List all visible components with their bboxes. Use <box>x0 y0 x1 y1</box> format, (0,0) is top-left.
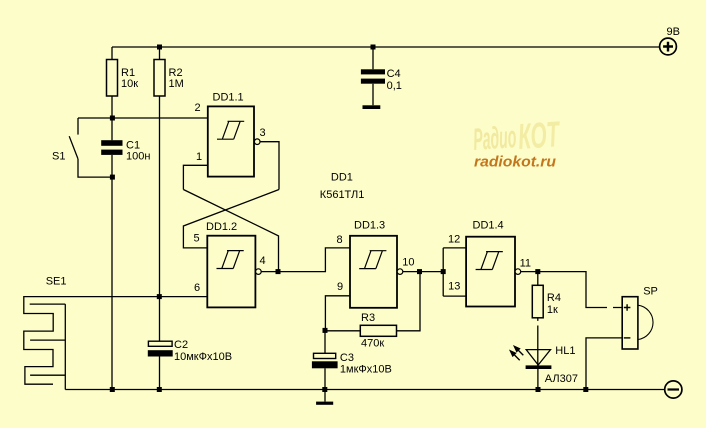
node bottom rail HL1 junction <box>536 387 541 392</box>
LED HL1 <box>526 350 552 390</box>
wire diagonal DD1.2 out to DD1.1 pin1 <box>183 190 278 272</box>
wire diagonal DD1.1 out to DD1.2 pin5 <box>183 190 279 248</box>
node bottom rail C3 junction <box>322 387 327 392</box>
svg-text:0,1: 0,1 <box>387 80 402 92</box>
svg-text:4: 4 <box>260 255 266 267</box>
svg-text:9В: 9В <box>667 26 680 38</box>
svg-text:DD1.1: DD1.1 <box>213 92 244 104</box>
svg-text:1к: 1к <box>547 304 558 316</box>
svg-text:HL1: HL1 <box>555 345 575 357</box>
op-amp U2 : gate DD1.2 <box>207 236 261 308</box>
svg-text:470к: 470к <box>361 338 384 350</box>
svg-text:radiokot.ru: radiokot.ru <box>474 155 556 171</box>
watermark Radio KOT <box>472 113 562 170</box>
wire DD1.2 output to DD1.3 pin8 <box>261 248 350 272</box>
node pin11 junction <box>535 269 540 274</box>
op-amp U3 : gate DD1.3 <box>350 236 403 308</box>
svg-text:C2: C2 <box>174 339 188 351</box>
svg-text:R4: R4 <box>547 292 561 304</box>
svg-text:S1: S1 <box>52 151 65 163</box>
svg-text:10мкФх10В: 10мкФх10В <box>174 351 232 363</box>
svg-text:10к: 10к <box>121 78 138 90</box>
svg-text:5: 5 <box>194 233 200 245</box>
capacitor C3 <box>312 330 338 389</box>
svg-text:1: 1 <box>196 151 202 163</box>
wire C1 column to bottom rail <box>111 177 113 389</box>
wire top supply rail <box>112 46 659 48</box>
capacitor C2 <box>148 297 173 390</box>
svg-text:Радио: Радио <box>472 119 517 157</box>
svg-text:1M: 1M <box>169 78 184 90</box>
ground under C3 <box>316 390 333 405</box>
wire DD1.1 pin1 <box>183 165 207 189</box>
node pin10 junction R3 <box>417 269 422 274</box>
svg-text:100н: 100н <box>126 151 150 163</box>
wire DD1.3 output to DD1.4 inputs <box>403 248 466 296</box>
svg-text:9: 9 <box>337 281 343 293</box>
resistor R3 <box>325 272 420 337</box>
node DD1.2 out junction <box>276 269 281 274</box>
wire bottom rail <box>65 389 664 391</box>
node DD1.4 input junction <box>441 269 446 274</box>
svg-text:C3: C3 <box>340 352 354 364</box>
svg-text:1мкФх10В: 1мкФх10В <box>340 364 392 376</box>
svg-text:SP: SP <box>643 286 658 298</box>
ground under C4 <box>363 105 381 109</box>
sensor SE1 electrode B comb <box>30 304 66 389</box>
node pin6 junction <box>157 294 162 299</box>
resistor R2 <box>154 47 165 297</box>
wire node A horizontal (S1 top to DD1.1 pin2) <box>78 117 208 119</box>
wire SP minus to bottom rail <box>586 338 622 390</box>
wire DD1.1 pin3 output <box>260 142 279 190</box>
node S1 bottom junction <box>110 175 115 180</box>
svg-text:DD1.2: DD1.2 <box>206 221 237 233</box>
resistor R4 <box>532 272 543 366</box>
node bottom rail SP junction <box>583 387 588 392</box>
svg-text:SE1: SE1 <box>46 276 67 288</box>
label R4 value <box>547 292 561 316</box>
node bottom rail C2 junction <box>157 387 162 392</box>
svg-text:C4: C4 <box>387 68 401 80</box>
svg-text:DD1.3: DD1.3 <box>354 220 385 232</box>
terminal minus <box>665 381 682 398</box>
svg-text:3: 3 <box>260 127 266 139</box>
label C2 value <box>174 339 232 363</box>
wire DD1.4 output <box>521 272 623 308</box>
svg-text:6: 6 <box>194 282 200 294</box>
node bottom rail C1 column junction <box>110 387 115 392</box>
capacitor C4 <box>361 47 385 105</box>
label C1 value <box>126 140 150 163</box>
svg-text:R3: R3 <box>361 312 375 324</box>
node top rail / C4 junction <box>371 45 376 50</box>
sensor SE1 electrode A serpentine <box>24 297 160 385</box>
node top rail / R2 junction <box>157 45 162 50</box>
label C4 value <box>387 68 402 92</box>
label R2 value <box>169 67 184 90</box>
svg-text:DD1: DD1 <box>331 172 353 184</box>
svg-text:10: 10 <box>402 257 414 269</box>
terminal +9V <box>660 38 677 55</box>
svg-text:13: 13 <box>448 281 460 293</box>
LED arrows <box>510 346 523 360</box>
svg-text:АЛ307: АЛ307 <box>545 373 578 385</box>
label C3 value <box>340 352 392 376</box>
svg-text:КОТ: КОТ <box>517 113 562 157</box>
node R3/C3 junction <box>323 328 328 333</box>
svg-text:DD1.4: DD1.4 <box>473 220 504 232</box>
label R3 value <box>361 312 384 350</box>
node R1 bottom junction <box>110 116 115 121</box>
svg-text:2: 2 <box>195 102 201 114</box>
op-amp U4 : gate DD1.4 <box>466 237 521 307</box>
svg-text:12: 12 <box>448 234 460 246</box>
svg-text:8: 8 <box>337 234 343 246</box>
svg-text:К561ТЛ1: К561ТЛ1 <box>320 189 365 201</box>
wire DD1.2 pin6 <box>159 296 207 298</box>
switch S1 <box>69 118 112 177</box>
op-amp U1 : gate DD1.1 <box>208 106 260 176</box>
capacitor C1 <box>101 118 122 177</box>
wire DD1.3 pin9 to RC node <box>325 296 350 331</box>
svg-text:11: 11 <box>520 258 531 270</box>
resistor R1 <box>107 47 118 118</box>
label R1 value <box>121 67 138 90</box>
speaker SP <box>622 297 653 349</box>
